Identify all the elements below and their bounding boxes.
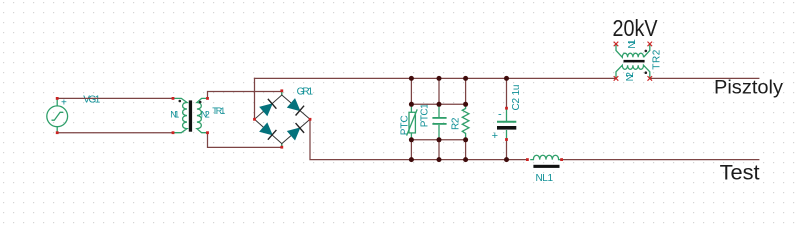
svg-text:TR2: TR2	[652, 49, 663, 69]
svg-text:N2: N2	[625, 72, 636, 82]
svg-text:20kV: 20kV	[613, 15, 659, 41]
svg-text:R2: R2	[451, 117, 462, 130]
svg-text:TR1: TR1	[212, 106, 225, 116]
svg-text:N1: N1	[170, 110, 179, 120]
svg-text:Pisztoly: Pisztoly	[714, 78, 784, 99]
svg-text:+: +	[492, 130, 498, 142]
svg-text:VG1: VG1	[83, 95, 100, 106]
svg-text:N2: N2	[201, 110, 210, 120]
svg-text:-: -	[498, 109, 502, 121]
svg-text:PTC1: PTC1	[420, 103, 431, 127]
svg-text:NL1: NL1	[536, 173, 554, 184]
svg-text:Test: Test	[720, 162, 760, 185]
svg-text:C2 1u: C2 1u	[511, 85, 522, 111]
svg-text:GR1: GR1	[297, 87, 314, 98]
